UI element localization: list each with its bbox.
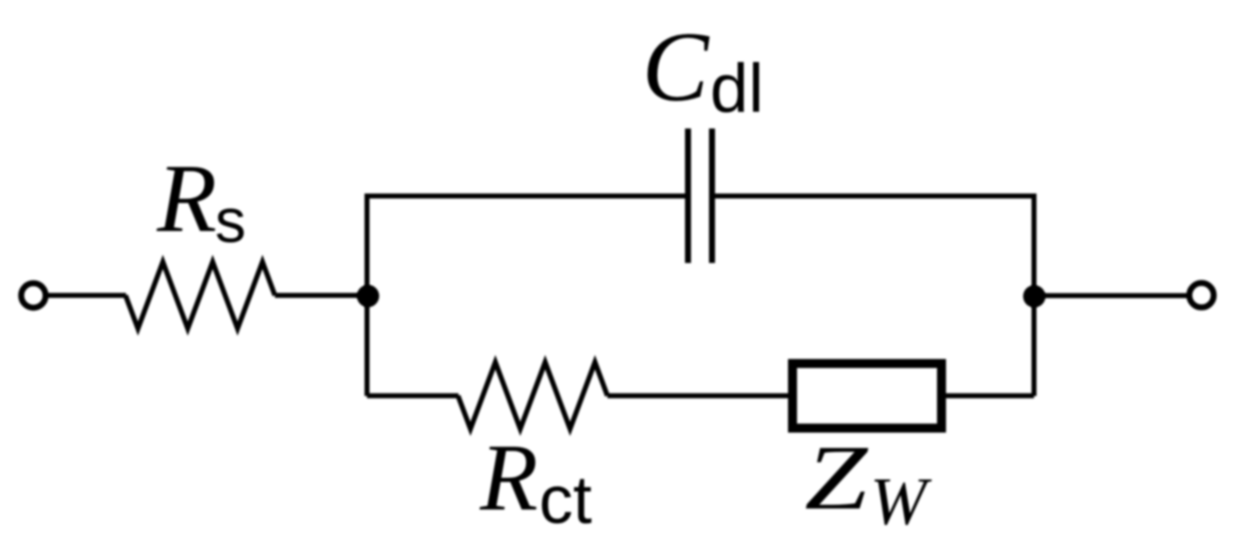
capacitor Cdl right plate [709,129,715,264]
Warburg element Zw (box) [793,364,942,429]
terminal left (open circle) [21,283,45,307]
svg-text:R: R [479,425,538,531]
svg-text:W: W [870,463,932,539]
svg-text:ct: ct [539,462,592,538]
svg-text:C: C [642,11,710,122]
svg-text:R: R [156,145,217,253]
wire left terminal to Rs [46,293,126,298]
wire Zw to right vertical [946,393,1034,398]
wire node B to right terminal [1034,293,1188,298]
resistor Rs [126,262,275,329]
capacitor Cdl left plate [685,129,691,264]
resistor Rct [458,362,607,429]
terminal right (open circle) [1189,283,1213,307]
wire Rs to node A [275,293,367,298]
svg-text:s: s [215,187,246,256]
wire Rct to Zw [607,393,788,398]
top run capacitor to right vertical wire [715,196,1034,396]
node B (junction dot) [1023,285,1045,307]
wire node A to Rct [367,393,459,398]
left parallel branch wire: vertical + top run to capacitor [367,196,685,396]
svg-text:dl: dl [710,50,764,127]
svg-text:Z: Z [805,427,870,529]
node A (junction dot) [357,285,379,307]
